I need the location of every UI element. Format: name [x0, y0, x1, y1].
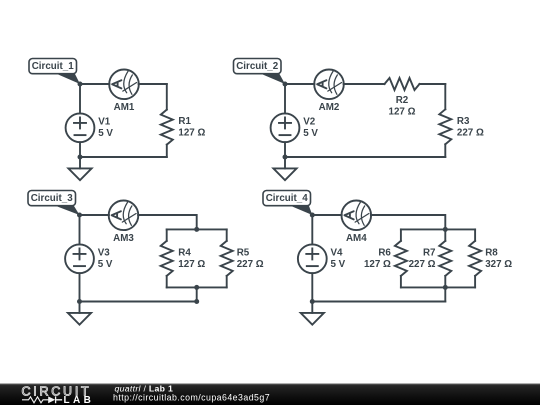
svg-text:R7: R7 — [423, 248, 436, 259]
ground — [273, 157, 296, 180]
wire — [401, 228, 475, 230]
wire — [79, 142, 81, 157]
wire — [79, 215, 81, 244]
wire — [312, 214, 341, 216]
junction — [310, 213, 315, 218]
node label Circuit_3 — [28, 191, 80, 216]
wire — [371, 215, 445, 229]
svg-text:227 Ω: 227 Ω — [409, 259, 436, 270]
junction — [283, 155, 288, 160]
resistor R8 — [474, 229, 476, 241]
svg-text:227 Ω: 227 Ω — [457, 127, 484, 138]
wire — [401, 286, 475, 288]
svg-text:AM3: AM3 — [113, 233, 134, 244]
wire — [79, 84, 81, 113]
resistor R4 — [166, 229, 168, 241]
ammeter AM3 — [109, 201, 139, 231]
svg-text:R6: R6 — [378, 248, 391, 259]
svg-text:R8: R8 — [485, 248, 498, 259]
svg-text:Circuit_4: Circuit_4 — [266, 193, 308, 204]
resistor R7 — [444, 229, 446, 241]
ammeter AM4 — [342, 201, 372, 231]
wire — [79, 273, 81, 301]
ammeter AM1 — [109, 70, 139, 100]
svg-text:R2: R2 — [396, 95, 409, 106]
wire — [139, 83, 167, 85]
junction — [194, 285, 199, 290]
svg-text:Circuit_1: Circuit_1 — [32, 61, 74, 72]
wire — [80, 214, 109, 216]
voltage source V1 — [66, 113, 95, 142]
svg-text:AM1: AM1 — [114, 102, 135, 113]
svg-text:http://circuitlab.com/cupa64e3: http://circuitlab.com/cupa64e3ad5g7 — [113, 393, 270, 403]
resistor R5 — [226, 229, 228, 241]
junction — [310, 299, 315, 304]
wire — [138, 215, 197, 229]
resistor R6 — [400, 229, 402, 241]
svg-text:127 Ω: 127 Ω — [389, 106, 416, 117]
wire — [167, 286, 227, 288]
junction — [77, 299, 82, 304]
svg-text:R4: R4 — [178, 248, 191, 259]
svg-text:5 V: 5 V — [303, 128, 318, 139]
wire — [285, 83, 314, 85]
ground — [68, 157, 91, 180]
svg-text:V2: V2 — [303, 117, 316, 128]
wire — [80, 301, 197, 303]
junction — [443, 285, 448, 290]
wire — [196, 287, 198, 301]
voltage source V4 — [298, 244, 327, 273]
voltage source V3 — [65, 244, 94, 273]
junction — [443, 227, 448, 232]
svg-text:227 Ω: 227 Ω — [237, 259, 264, 270]
footer bar — [0, 384, 540, 405]
svg-text:AM4: AM4 — [346, 233, 367, 244]
svg-text:V3: V3 — [98, 248, 111, 259]
wire — [444, 287, 446, 301]
svg-text:Circuit_2: Circuit_2 — [236, 61, 278, 72]
junction — [77, 213, 82, 218]
voltage source V2 — [271, 113, 300, 142]
junction — [194, 227, 199, 232]
svg-text:R3: R3 — [457, 116, 470, 127]
junction — [78, 82, 83, 87]
wire — [80, 156, 167, 158]
wire — [284, 84, 286, 113]
wire — [344, 83, 385, 85]
svg-text:R5: R5 — [237, 248, 250, 259]
wire — [285, 156, 445, 158]
svg-text:Circuit_3: Circuit_3 — [31, 193, 73, 204]
svg-text:127 Ω: 127 Ω — [178, 128, 205, 139]
svg-text:327 Ω: 327 Ω — [485, 259, 512, 270]
svg-text:5 V: 5 V — [331, 259, 346, 270]
resistor R3 — [444, 84, 446, 109]
wire — [284, 142, 286, 157]
logo resistor squiggle + diode — [22, 397, 50, 403]
svg-text:127 Ω: 127 Ω — [178, 259, 205, 270]
junction — [78, 155, 83, 160]
svg-text:AM2: AM2 — [319, 102, 340, 113]
wire — [311, 273, 313, 301]
wire — [311, 215, 313, 244]
svg-text:127 Ω: 127 Ω — [364, 259, 391, 270]
node label Circuit_2 — [234, 59, 286, 85]
node label Circuit_1 — [29, 59, 80, 85]
resistor R1 — [166, 84, 168, 110]
wire — [420, 83, 446, 85]
node label Circuit_4 — [263, 191, 312, 216]
svg-text:R1: R1 — [178, 116, 191, 127]
svg-text:5 V: 5 V — [98, 259, 113, 270]
svg-text:LAB: LAB — [64, 395, 95, 405]
svg-text:V4: V4 — [331, 248, 344, 259]
wire — [167, 228, 227, 230]
wire — [80, 83, 109, 85]
resistor R2 — [385, 78, 420, 90]
ground — [301, 302, 324, 325]
svg-text:5 V: 5 V — [98, 128, 113, 139]
svg-text:V1: V1 — [98, 117, 111, 128]
ammeter AM2 — [314, 70, 344, 100]
ground — [68, 302, 91, 325]
wire — [312, 301, 445, 303]
junction — [283, 82, 288, 87]
junction — [194, 299, 199, 304]
